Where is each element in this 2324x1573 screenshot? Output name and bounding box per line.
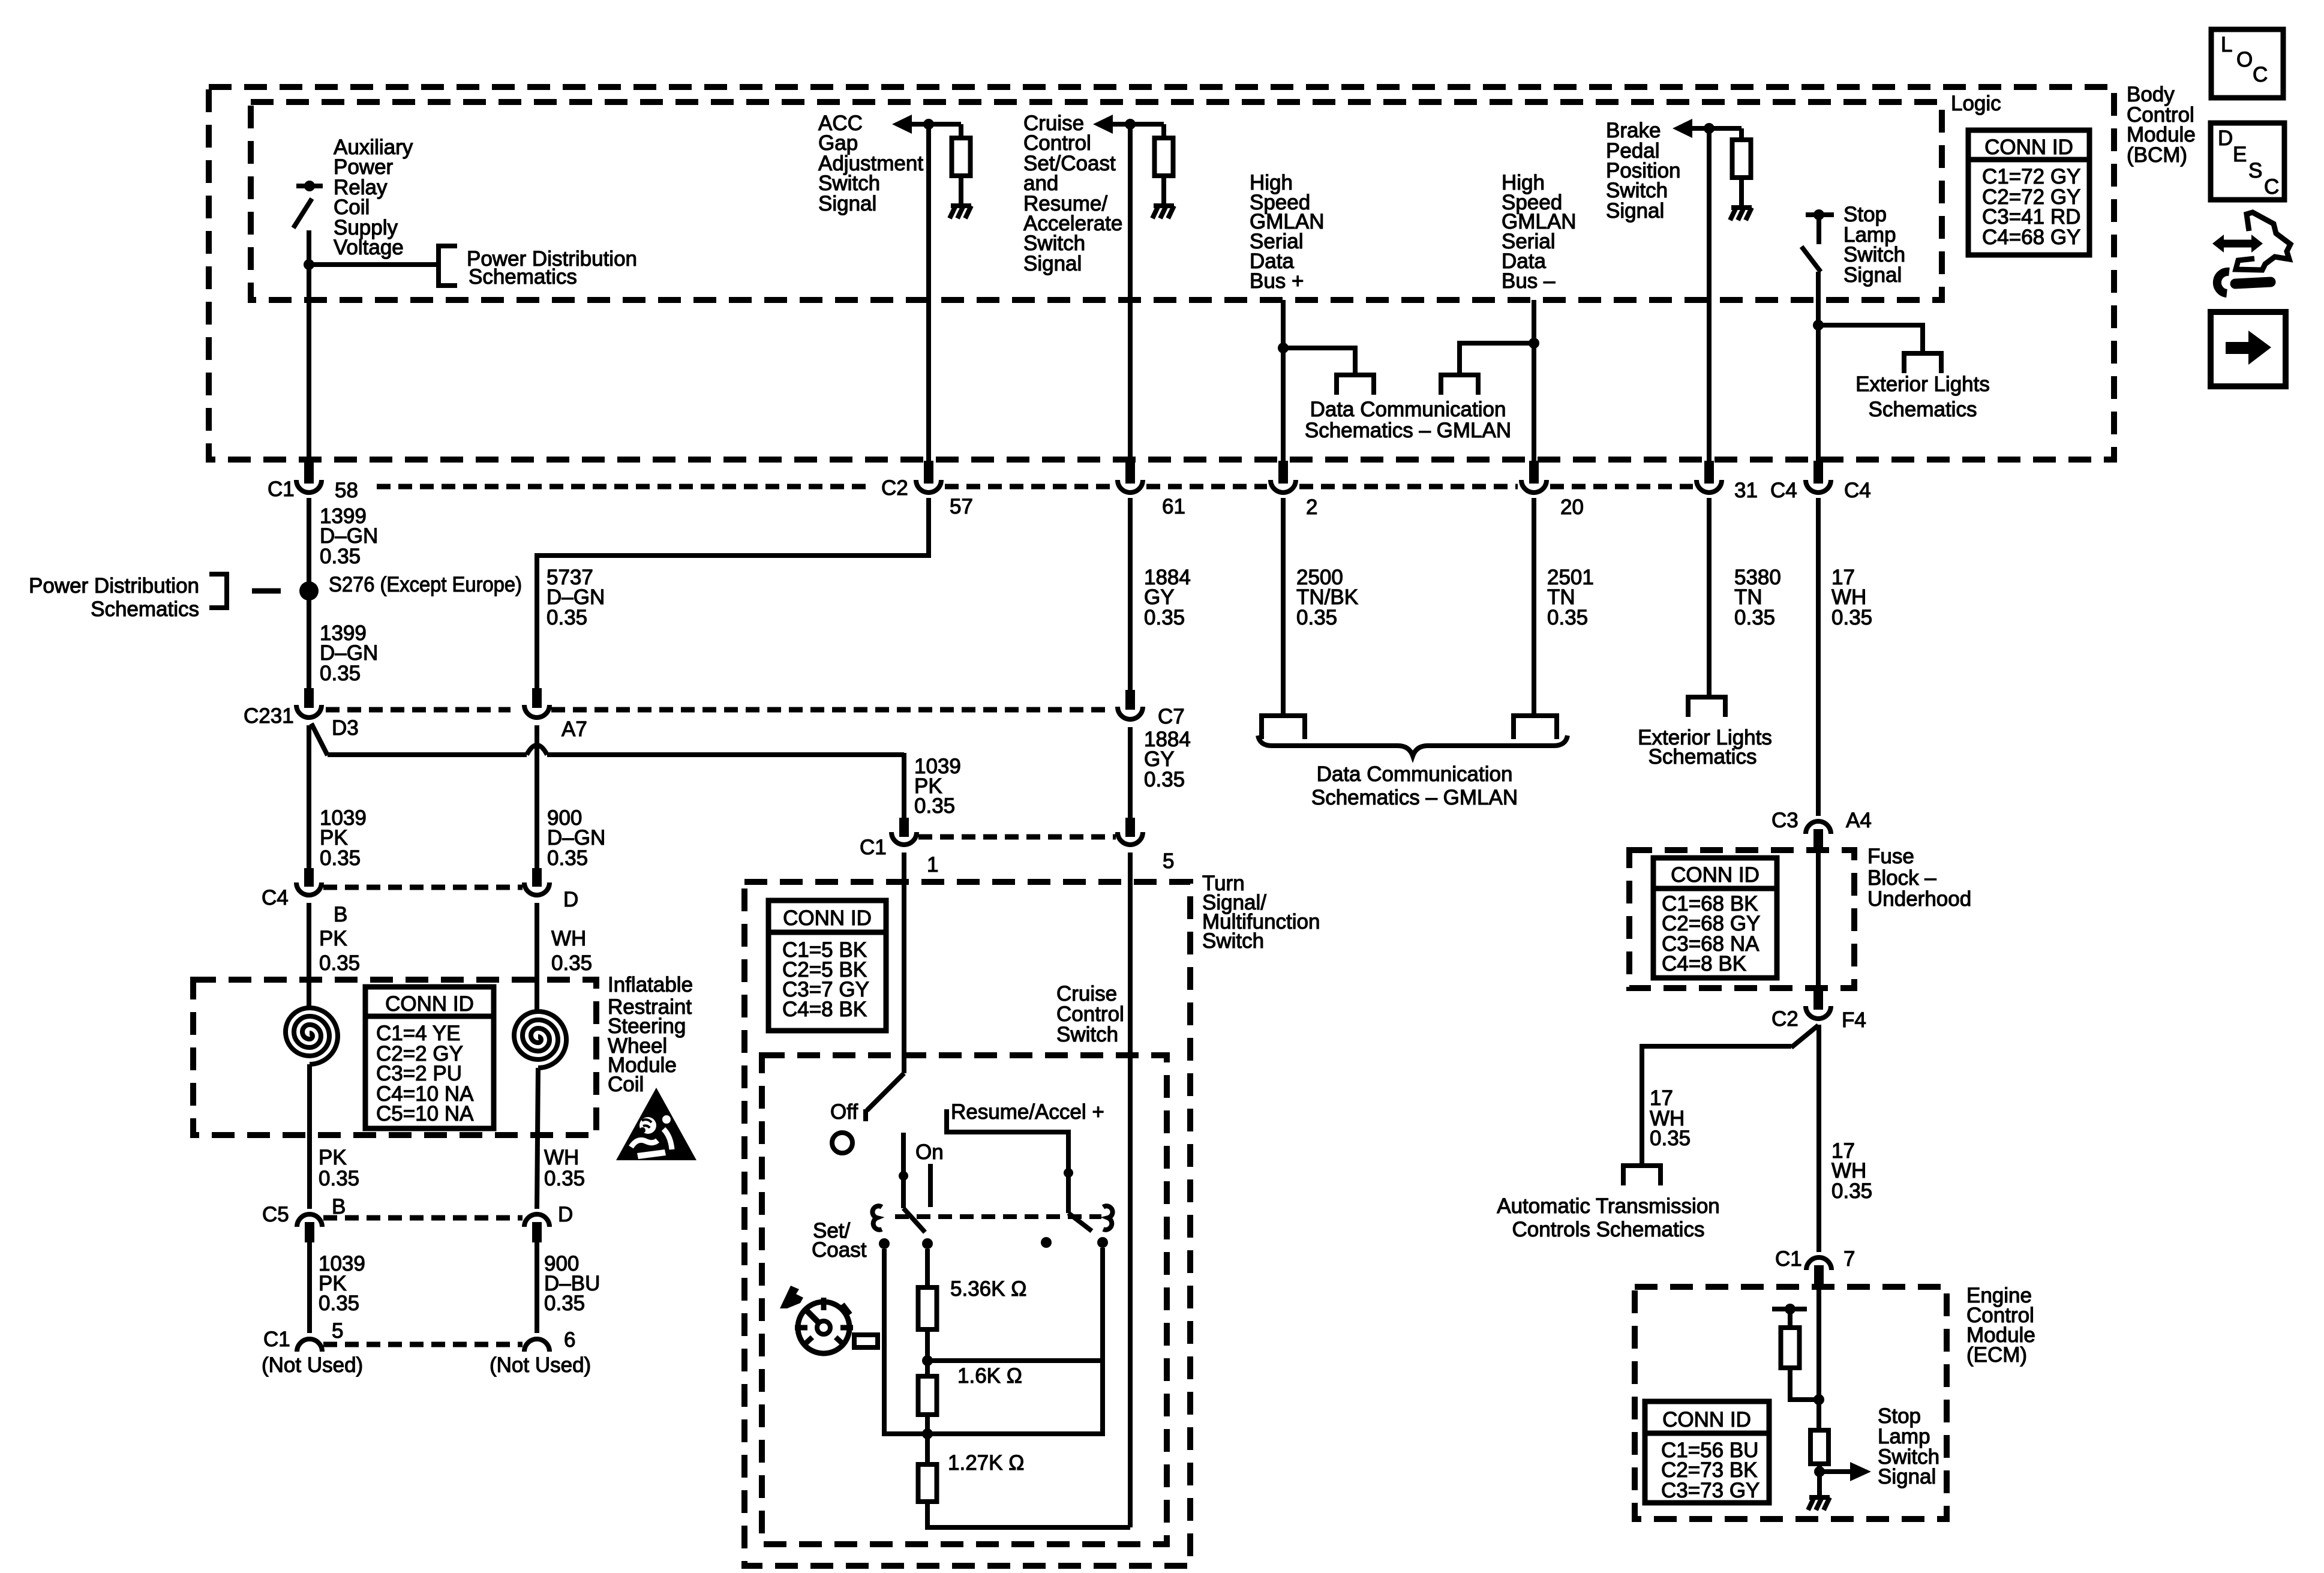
- wire: relay to junction and down to C1 pin 58: [307, 230, 311, 462]
- wire: pin 2 to data communication (lower): [1281, 498, 1286, 718]
- svg-text:C4: C4: [1770, 479, 1797, 502]
- pull-up contact (ECM tick + dot): [1772, 1304, 1807, 1314]
- svg-text:0.35: 0.35: [544, 1292, 585, 1315]
- wire: cruise signal to pin 61: [1128, 124, 1133, 462]
- wire: 5380 TN from pin 31 to exterior lights: [1707, 498, 1712, 697]
- label Automatic Transmission Controls Schematics: [1497, 1194, 1720, 1241]
- svg-text:CONN ID: CONN ID: [1984, 136, 2073, 159]
- reference bracket: Power Distribution Schematics (left): [29, 574, 281, 621]
- wire label circuit 1399 D-GN 0.35 (upper): [320, 505, 378, 568]
- svg-text:Underhood: Underhood: [1867, 887, 1971, 911]
- svg-text:C: C: [2253, 63, 2268, 86]
- node: junction ECM pull-up to stop lamp signal: [1813, 1394, 1824, 1405]
- svg-text:0.35: 0.35: [1734, 606, 1775, 629]
- svg-text:57: 57: [950, 495, 973, 518]
- connector C2 pin 61 (terminal + cup): [1118, 461, 1143, 493]
- svg-text:7: 7: [1843, 1247, 1855, 1271]
- contact lead: Resume/Accel: [947, 1109, 1068, 1172]
- module box: Body Control Module (BCM) outer dashed border: [209, 87, 2114, 460]
- label ACC Gap Adjustment Switch Signal: [818, 112, 923, 215]
- connector C4 stop lamp (terminal + cup): [1806, 461, 1831, 493]
- node: junction R1/R2: [922, 1355, 933, 1366]
- resistor 1.6K: [918, 1376, 937, 1415]
- label Exterior Lights Schematics (pin 31): [1638, 726, 1772, 769]
- switch arm: off/on (open toward Off): [866, 1073, 904, 1121]
- wire label circuit 17 WH 0.35 (to ECM): [1831, 1139, 1872, 1203]
- label Resume/Accel +: [951, 1100, 1104, 1124]
- svg-text:C7: C7: [1158, 705, 1185, 728]
- wire label circuit 1039 PK 0.35 (bottom): [319, 1252, 365, 1315]
- resistor: cruise pull-down: [1155, 124, 1173, 206]
- node: junction R2/R3: [922, 1428, 933, 1439]
- svg-text:0.35: 0.35: [1296, 606, 1337, 629]
- pin labels C5 row: [262, 1195, 573, 1226]
- svg-text:D3: D3: [332, 716, 359, 740]
- wire label circuit 1884 GY 0.35 (upper): [1144, 566, 1191, 629]
- wire: 1399 D-GN from C1-58 to C231: [307, 498, 311, 688]
- off-page reference: Automatic Transmission Controls Schematics: [1623, 1166, 1661, 1185]
- connector C4 pin D (coil): [524, 868, 550, 895]
- svg-text:L: L: [2221, 33, 2232, 56]
- connector C2 pin F4: [1806, 990, 1831, 1019]
- svg-text:0.35: 0.35: [320, 846, 361, 870]
- svg-text:C4=68 GY: C4=68 GY: [1982, 226, 2080, 249]
- off-page reference: GMLAN + to Data Communication Schematics: [1337, 375, 1374, 395]
- svg-text:CONN ID: CONN ID: [1671, 863, 1759, 887]
- signal arrow: Cruise Control Set/Coast Resume/Accelerate Switch Signal: [1093, 115, 1164, 134]
- svg-text:0.35: 0.35: [1547, 606, 1588, 629]
- wire: GMLAN - branch to data communication reference: [1460, 343, 1534, 375]
- svg-text:Coil: Coil: [608, 1073, 644, 1096]
- warning icon: airbag triangle: [616, 1088, 696, 1160]
- svg-text:C3=73 GY: C3=73 GY: [1661, 1479, 1759, 1502]
- svg-text:0.35: 0.35: [1831, 606, 1872, 629]
- wire: branch to exterior lights reference: [1818, 325, 1923, 353]
- label Engine Control Module (ECM): [1966, 1284, 2035, 1367]
- svg-text:C1: C1: [860, 836, 887, 859]
- node: junction to exterior lights branch: [1813, 320, 1824, 331]
- svg-text:0.35: 0.35: [544, 1167, 585, 1190]
- connector C7 (turn signal switch): [1118, 690, 1143, 719]
- svg-text:WH: WH: [551, 927, 586, 950]
- svg-text:C1: C1: [268, 478, 295, 501]
- svg-text:58: 58: [335, 479, 358, 502]
- connector C5 pin D: [524, 1214, 550, 1242]
- connector C3 pin A4 (fuse block): [1806, 821, 1831, 849]
- signal arrow: Stop Lamp Switch Signal (ECM): [1819, 1462, 1871, 1481]
- svg-text:(ECM): (ECM): [1966, 1343, 2027, 1367]
- label Set/Coast: [812, 1219, 867, 1262]
- connector row dashed line (BCM bottom connectors): [377, 484, 1693, 490]
- svg-text:CONN ID: CONN ID: [1662, 1408, 1751, 1431]
- svg-text:Data Communication: Data Communication: [1317, 763, 1513, 786]
- resistor: brake pull-down: [1733, 128, 1751, 208]
- contact lead: On position: [928, 1164, 933, 1207]
- label Stop Lamp Switch Signal (ECM): [1878, 1404, 1939, 1488]
- wire: GMLAN + branch to data communication reference: [1283, 348, 1355, 375]
- wire: coil 1 to C5-B: [307, 1064, 312, 1209]
- pin labels C1 row: [860, 836, 1174, 876]
- node: junction GMLAN -: [1529, 338, 1539, 349]
- label Logic: [1951, 92, 2001, 115]
- label On: [915, 1140, 944, 1164]
- off-page reference: Exterior Lights Schematics (pin 31): [1688, 697, 1725, 717]
- svg-text:Logic: Logic: [1951, 92, 2001, 115]
- wire: C5-B to C1-5: [307, 1242, 312, 1333]
- svg-text:WH: WH: [544, 1146, 579, 1169]
- resistor 5.36K: [918, 1287, 937, 1329]
- svg-text:B: B: [334, 903, 347, 926]
- svg-text:(Not Used): (Not Used): [262, 1353, 363, 1377]
- wire label circuit 2500 TN/BK 0.35: [1296, 566, 1358, 629]
- connector C2 pin 57 (terminal + cup): [916, 461, 941, 493]
- svg-text:E: E: [2233, 143, 2247, 166]
- connector ID table (ECM): [1645, 1401, 1769, 1503]
- wire: 1884 GY from pin 61 to C7: [1128, 498, 1133, 690]
- off-page reference: pin 20 to Data Communication: [1514, 716, 1557, 739]
- label Inflatable Restraint Steering Wheel Module Coil: [608, 973, 693, 1096]
- svg-text:PK: PK: [319, 927, 347, 950]
- svg-text:20: 20: [1560, 496, 1584, 519]
- svg-text:C1: C1: [263, 1328, 290, 1351]
- wire: A7 down to C4-D: [535, 725, 539, 870]
- label High Speed GMLAN Serial Data Bus -: [1502, 171, 1576, 293]
- connector ID table (multifunction switch): [768, 900, 886, 1031]
- svg-text:C: C: [2264, 175, 2279, 199]
- svg-text:Schematics – GMLAN: Schematics – GMLAN: [1305, 419, 1511, 442]
- switch: stop lamp switch contact (tick + dot + stub): [1806, 209, 1834, 244]
- pin labels C2 F4: [1771, 1007, 1866, 1032]
- svg-text:C2: C2: [1771, 1007, 1798, 1031]
- wire: GMLAN bus - to pin 20: [1532, 300, 1536, 462]
- svg-text:CONN ID: CONN ID: [385, 992, 474, 1016]
- connector ID table (coil): [365, 987, 494, 1128]
- connector C2 pin 2 (terminal + cup): [1271, 461, 1296, 493]
- pivot marker left: [872, 1206, 882, 1230]
- svg-text:C4=8 BK: C4=8 BK: [1662, 952, 1746, 975]
- svg-text:Switch: Switch: [1056, 1023, 1118, 1046]
- wire: C1-1 down to off/on switch: [902, 852, 906, 1073]
- svg-text:D: D: [2218, 127, 2233, 150]
- label 1.27K ohm: [948, 1451, 1024, 1475]
- svg-text:On: On: [915, 1140, 944, 1164]
- svg-text:Signal: Signal: [1023, 252, 1082, 275]
- svg-text:0.35: 0.35: [547, 846, 588, 870]
- wire: coil 2 to C5-D: [537, 1068, 538, 1209]
- wire label circuit 1399 D-GN 0.35 (lower): [320, 622, 378, 685]
- svg-text:Inflatable: Inflatable: [608, 973, 693, 996]
- pin labels C1 7: [1775, 1247, 1855, 1271]
- svg-text:Schematics: Schematics: [1649, 745, 1757, 769]
- svg-text:0.35: 0.35: [320, 662, 361, 685]
- label S276 (Except Europe): [329, 573, 522, 596]
- wire: 1884 GY main through switch: [1128, 852, 1133, 1527]
- connector row dashed line (C1 not-used row): [323, 1342, 523, 1347]
- wire label circuit 1039 PK 0.35 (left): [320, 806, 367, 870]
- contact: Off position (circle): [832, 1133, 852, 1153]
- svg-text:Power Distribution: Power Distribution: [29, 574, 199, 598]
- node: junction on cruise wire: [1125, 119, 1136, 130]
- wire: C7 to multifunction switch pin 5: [1128, 727, 1133, 819]
- connector ID table (fuse block): [1653, 858, 1777, 978]
- inductor coil L1 (steering wheel module coil left): [286, 1008, 338, 1064]
- contact: Resume/Accel fixed: [1097, 1237, 1108, 1248]
- switch wiper: resume/accel: [1064, 1168, 1092, 1231]
- wire: On contact to resistor chain: [925, 1249, 930, 1287]
- svg-text:F4: F4: [1842, 1008, 1866, 1032]
- wire: resistor to ground: [1817, 1464, 1822, 1497]
- wire: pin 20 to data communication (lower): [1532, 498, 1536, 718]
- svg-text:CONN ID: CONN ID: [783, 906, 872, 930]
- label Fuse Block - Underhood: [1867, 845, 1971, 911]
- label Stop Lamp Switch Signal (BCM): [1843, 203, 1905, 287]
- wire: C5-D to pin 6: [535, 1242, 539, 1333]
- connector C1 pin 1 (multifunction switch): [891, 818, 917, 845]
- wire label circuit 17 WH 0.35 (branch): [1650, 1086, 1691, 1150]
- svg-text:0.35: 0.35: [320, 545, 361, 568]
- svg-text:Fuse: Fuse: [1867, 845, 1914, 868]
- svg-text:D: D: [563, 888, 578, 911]
- label Cruise Control Switch: [1056, 982, 1124, 1046]
- svg-text:A4: A4: [1846, 809, 1872, 832]
- relay contact: Auxiliary Power Relay coil supply (tick + dot): [296, 181, 323, 191]
- label 1.6K ohm: [957, 1364, 1022, 1388]
- switch arm (stop lamp switch): [1801, 247, 1821, 272]
- wire: D3 jog to 1039 PK horizontal run: [311, 724, 904, 819]
- svg-text:Signal: Signal: [1878, 1465, 1936, 1488]
- module box: Turn Signal/Multifunction Switch (dashed): [744, 882, 1190, 1566]
- wire: C4-B to coil 1: [307, 903, 311, 1007]
- svg-text:C1: C1: [1775, 1247, 1802, 1271]
- wire: D3 down to C4-B: [307, 725, 311, 870]
- module box: Engine Control Module (ECM) dashed: [1635, 1287, 1947, 1519]
- svg-text:S: S: [2248, 159, 2262, 182]
- resistor: ACC pull-down: [952, 124, 971, 206]
- label Auxiliary Power Relay Coil Supply Voltage: [334, 136, 413, 259]
- legend icon: wrench with double arrow: [2212, 212, 2290, 293]
- svg-text:Exterior Lights: Exterior Lights: [1855, 373, 1990, 396]
- svg-text:C4: C4: [262, 886, 289, 909]
- connector row dashed line (C5 row): [323, 1215, 523, 1221]
- off-page reference: Exterior Lights Schematics (BCM): [1904, 353, 1941, 373]
- connector C5 pin B: [297, 1214, 322, 1242]
- pin labels C3 A4: [1771, 809, 1872, 832]
- label 5.36K ohm: [950, 1277, 1026, 1301]
- pin labels C1/5 row and (Not Used): [262, 1319, 591, 1377]
- svg-text:Schematics: Schematics: [91, 598, 199, 621]
- svg-text:1.27K Ω: 1.27K Ω: [948, 1451, 1024, 1475]
- wire: stop lamp switch to C4 connector: [1816, 272, 1821, 462]
- connector row dashed line (C231 row): [326, 707, 1113, 713]
- pivot marker right: [1103, 1206, 1113, 1230]
- module box: Fuse Block - Underhood (dashed): [1629, 850, 1854, 988]
- wire: C1-7 into ECM: [1816, 1284, 1821, 1431]
- wire: 17 WH from F4 to ECM C1-7: [1816, 1025, 1821, 1252]
- connector row dashed line (coil C4 row): [323, 885, 523, 890]
- wire: C4-D to coil 2: [535, 903, 539, 1011]
- legend box LOC: [2211, 29, 2283, 98]
- pin labels C231 row: [244, 704, 1185, 741]
- ground (ACC resistor): [950, 206, 971, 218]
- svg-text:C4=8 BK: C4=8 BK: [782, 998, 867, 1021]
- legend box: forward arrow: [2211, 312, 2286, 386]
- node S276 (Except Europe): [299, 581, 319, 601]
- label High Speed GMLAN Serial Data Bus +: [1250, 171, 1324, 293]
- wire: brake signal to pin 31: [1707, 128, 1712, 462]
- label Turn Signal/Multifunction Switch: [1202, 872, 1320, 953]
- node: junction on relay supply wire: [304, 259, 314, 270]
- svg-text:(Not Used): (Not Used): [490, 1353, 591, 1377]
- svg-text:0.35: 0.35: [1831, 1179, 1872, 1203]
- svg-text:Schematics – GMLAN: Schematics – GMLAN: [1311, 786, 1518, 809]
- label Cruise Control Set/Coast and Resume/Accelerate Switch Signal: [1023, 112, 1122, 275]
- svg-text:(BCM): (BCM): [2127, 143, 2187, 167]
- wire: junction rail to resume contact wire: [927, 1358, 1102, 1363]
- wire label circuit 5380 TN 0.35: [1734, 566, 1781, 629]
- svg-text:Signal: Signal: [1606, 199, 1664, 223]
- pin labels BCM bottom row: [268, 476, 1871, 519]
- connector C1 pin 58 (terminal + cup): [296, 461, 322, 493]
- svg-text:0.35: 0.35: [319, 1292, 359, 1315]
- off-page reference: GMLAN - to Data Communication Schematics: [1441, 375, 1478, 395]
- contact: On fixed: [922, 1238, 933, 1249]
- node: junction on brake wire: [1704, 123, 1715, 134]
- wire: 17 WH from BCM C4 to fuse block A4: [1816, 498, 1821, 816]
- wire: F4 diagonal branch to automatic transmission reference: [1642, 1025, 1818, 1166]
- switch arm (relay): [293, 199, 312, 228]
- svg-text:B: B: [332, 1195, 346, 1218]
- ground (brake resistor): [1730, 208, 1752, 220]
- label Data Communication Schematics - GMLAN (upper): [1305, 398, 1511, 442]
- wire label circuit 900 D-BU 0.35: [544, 1252, 600, 1315]
- module box: Inflatable Restraint Steering Wheel Module Coil (dashed): [193, 980, 596, 1135]
- svg-text:0.35: 0.35: [1650, 1127, 1691, 1150]
- resistor 1.27K: [918, 1464, 937, 1502]
- ground (ECM): [1808, 1497, 1830, 1510]
- svg-text:A7: A7: [562, 718, 587, 741]
- label Exterior Lights Schematics (BCM): [1855, 373, 1990, 421]
- off-page reference: pin 2 to Data Communication: [1262, 716, 1305, 739]
- svg-text:Signal: Signal: [818, 192, 876, 215]
- ground (cruise resistor): [1152, 206, 1174, 218]
- switch wiper: on/off common: [899, 1133, 925, 1232]
- svg-text:0.35: 0.35: [1144, 606, 1185, 629]
- svg-text:Controls Schematics: Controls Schematics: [1512, 1218, 1705, 1241]
- label Body Control Module (BCM): [2127, 83, 2196, 167]
- switch pivot dashed line: [895, 1214, 1101, 1219]
- label Data Communication Schematics - GMLAN (lower): [1311, 763, 1518, 809]
- connector C231 pin D3: [296, 688, 322, 718]
- connector C4 pin B (coil): [296, 868, 322, 895]
- svg-text:Data Communication: Data Communication: [1310, 398, 1506, 421]
- svg-text:C4: C4: [1844, 479, 1871, 502]
- svg-text:5.36K Ω: 5.36K Ω: [950, 1277, 1026, 1301]
- pin labels C4 row: [262, 886, 578, 926]
- svg-text:O: O: [2236, 48, 2253, 71]
- label Power Distribution Schematics (top): [467, 247, 637, 289]
- resistor: ECM stop lamp input: [1810, 1430, 1828, 1464]
- svg-text:D: D: [558, 1203, 573, 1226]
- svg-text:Coast: Coast: [812, 1238, 867, 1262]
- label Brake Pedal Position Switch Signal: [1606, 119, 1681, 223]
- wire label WH 0.35 (coil lower right): [544, 1146, 585, 1190]
- svg-text:Schematics: Schematics: [1869, 398, 1977, 421]
- wire: 5.36K to junction: [925, 1329, 930, 1376]
- node: junction on ACC wire: [923, 119, 934, 130]
- svg-text:0.35: 0.35: [319, 951, 360, 975]
- svg-text:5: 5: [332, 1319, 343, 1343]
- wire: Set/Coast contact down: [884, 1249, 927, 1434]
- svg-text:1: 1: [927, 853, 938, 876]
- contact: fixed (unlabeled): [1041, 1237, 1052, 1248]
- wire label circuit 17 WH 0.35 (upper): [1831, 566, 1872, 629]
- wire: GMLAN bus + to pin 2: [1281, 300, 1286, 462]
- contact: Set/Coast fixed: [879, 1238, 890, 1249]
- svg-text:Signal: Signal: [1843, 263, 1902, 287]
- wire label WH 0.35 (coil upper right): [551, 927, 592, 975]
- svg-text:0.35: 0.35: [547, 606, 587, 629]
- svg-text:Voltage: Voltage: [334, 236, 404, 259]
- signal arrow: Brake Pedal Position Switch Signal: [1673, 119, 1742, 138]
- wire label circuit 5737 D-GN 0.35: [547, 566, 605, 629]
- svg-text:Switch: Switch: [1202, 929, 1264, 953]
- wire: 5737 D-GN from C2-57 down and left to A7: [537, 498, 929, 688]
- wire: 1.6K to junction 2: [925, 1415, 930, 1464]
- wire label circuit 1884 GY 0.35 (lower): [1144, 728, 1191, 791]
- svg-text:0.35: 0.35: [319, 1167, 359, 1190]
- legend box DESC: [2211, 123, 2284, 200]
- brace: data communication group: [1258, 736, 1568, 756]
- svg-text:Block –: Block –: [1867, 866, 1936, 890]
- wire label PK 0.35 (coil upper left): [319, 927, 360, 975]
- connector C1 pin 5 (not used): [297, 1339, 322, 1352]
- resistor: ECM pull-up: [1781, 1311, 1819, 1400]
- svg-text:C2: C2: [881, 476, 908, 500]
- svg-text:C5=10 NA: C5=10 NA: [376, 1102, 474, 1125]
- inductor coil L2 (steering wheel module coil right): [514, 1011, 566, 1068]
- icon: speedometer gauge with pointer: [780, 1286, 878, 1353]
- wire: resume contact down to lower rail: [927, 1248, 1103, 1434]
- svg-text:0.35: 0.35: [551, 951, 592, 975]
- connector ID table (BCM): [1968, 130, 2089, 255]
- svg-text:61: 61: [1162, 495, 1185, 518]
- svg-text:C5: C5: [262, 1203, 289, 1226]
- wire: through fuse block to C2-F4: [1816, 849, 1821, 993]
- wire label circuit 1039 PK 0.35 (to cruise switch): [914, 755, 961, 818]
- svg-text:1.6K Ω: 1.6K Ω: [957, 1364, 1022, 1388]
- svg-text:Off: Off: [830, 1100, 858, 1124]
- connector pin 6 (not used): [524, 1339, 550, 1352]
- svg-text:6: 6: [564, 1328, 575, 1352]
- reference bracket: Power Distribution Schematics (top): [439, 246, 457, 286]
- switch box: Cruise Control Switch (dashed): [762, 1055, 1167, 1544]
- svg-text:5: 5: [1163, 849, 1174, 873]
- svg-text:PK: PK: [319, 1146, 347, 1169]
- svg-text:S276 (Except Europe): S276 (Except Europe): [329, 573, 522, 596]
- wire label circuit 2501 TN 0.35: [1547, 566, 1594, 629]
- svg-text:Resume/Accel +: Resume/Accel +: [951, 1100, 1104, 1124]
- wire: junction to Power Distribution bracket: [309, 262, 439, 267]
- svg-text:2: 2: [1306, 496, 1317, 519]
- connector C2 pin 20 (terminal + cup): [1521, 461, 1547, 493]
- node: junction stop lamp switch signal (ECM): [1814, 1466, 1825, 1477]
- svg-text:31: 31: [1734, 479, 1758, 502]
- wire label circuit 900 D-GN 0.35: [547, 806, 605, 870]
- svg-text:0.35: 0.35: [914, 794, 955, 818]
- svg-text:Schematics: Schematics: [469, 265, 577, 289]
- label Off: [830, 1100, 858, 1124]
- svg-text:Bus +: Bus +: [1250, 269, 1304, 293]
